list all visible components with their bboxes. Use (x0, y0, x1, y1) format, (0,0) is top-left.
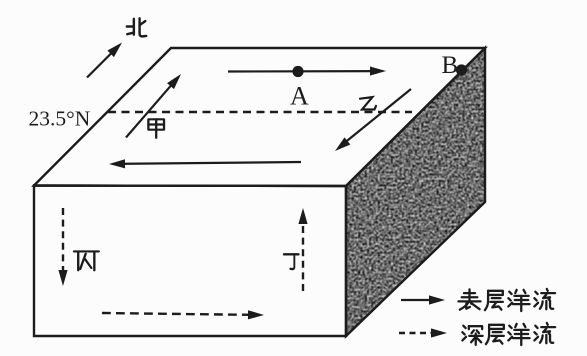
legend dashed arrow (399, 332, 440, 334)
dashed arrow 丙 (down) (62, 208, 64, 278)
label 北 (127, 18, 146, 36)
label 丙 (74, 251, 99, 270)
point A dot (292, 66, 303, 77)
dashed line 23.5N (108, 111, 412, 113)
right face (textured) (336, 38, 496, 346)
dashed arrow 丁 (up) (302, 216, 304, 291)
legend label 深层洋流 (462, 326, 482, 345)
svg-text:A: A (290, 82, 309, 111)
front face (34, 186, 346, 337)
legend label 表层洋流 (458, 289, 480, 309)
label 丁 (284, 254, 299, 269)
bottom dashed arrow (right) (102, 313, 256, 315)
label 甲 (148, 119, 164, 137)
arrow 乙 (340, 89, 411, 147)
left arrow on top face (116, 162, 301, 164)
arrow with point A (228, 70, 379, 73)
point B dot (456, 64, 467, 75)
label 乙 (360, 97, 376, 109)
top face (34, 48, 485, 186)
svg-text:B: B (442, 52, 459, 79)
svg-text:23.5°N: 23.5°N (29, 107, 91, 131)
legend solid arrow (401, 299, 438, 301)
north arrow (87, 49, 116, 78)
arrow 甲 (126, 80, 176, 138)
